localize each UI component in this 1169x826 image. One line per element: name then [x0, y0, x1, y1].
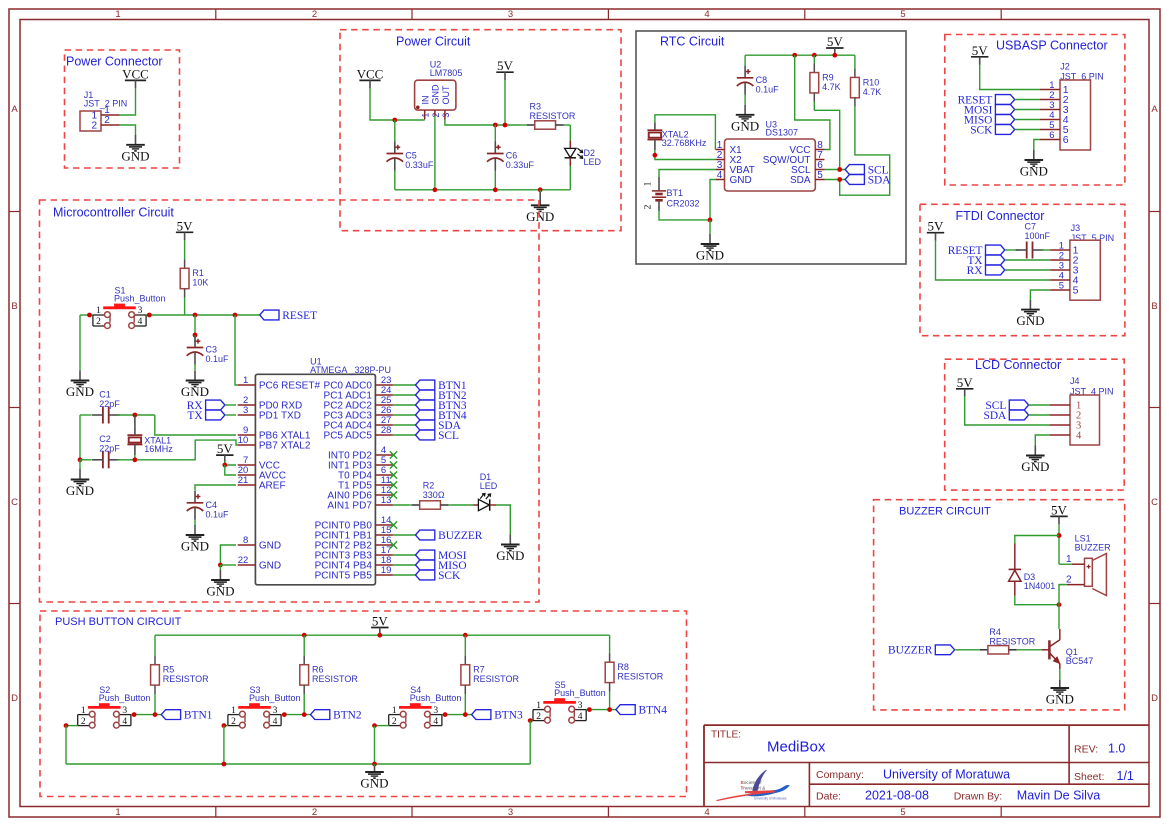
wire C5 top — [394, 120, 396, 142]
wire BT1 to ground — [659, 211, 710, 220]
svg-text:0.1uF: 0.1uF — [206, 509, 230, 519]
svg-text:2: 2 — [644, 204, 654, 209]
power flag VCC (Power Connector) — [122, 66, 149, 88]
wire pin5 to SDA port — [825, 179, 846, 181]
wire AREF to C4 — [195, 485, 236, 491]
ground (FTDI) — [1016, 300, 1044, 328]
svg-text:Drawn By:: Drawn By: — [954, 791, 1002, 803]
svg-text:R6: R6 — [312, 665, 324, 675]
svg-text:LCD Connector: LCD Connector — [975, 358, 1061, 372]
svg-text:3: 3 — [441, 113, 451, 118]
svg-text:2: 2 — [1066, 574, 1072, 585]
svg-text:RESISTOR: RESISTOR — [530, 111, 576, 121]
wire MISO to J2 — [1015, 119, 1040, 121]
svg-text:R9: R9 — [822, 72, 834, 82]
svg-text:BUZZER: BUZZER — [438, 530, 483, 542]
svg-text:RESET: RESET — [282, 310, 317, 322]
ground (S1) — [66, 370, 94, 399]
wire D3 bottom branch — [1015, 596, 1059, 605]
svg-text:4.7K: 4.7K — [863, 87, 882, 97]
svg-text:2: 2 — [104, 115, 110, 126]
svg-text:2021-08-08: 2021-08-08 — [865, 789, 929, 803]
svg-text:2: 2 — [91, 121, 97, 132]
wire SCL to J4 pin1 — [1029, 404, 1050, 406]
wire SCK to J2 — [1015, 129, 1040, 131]
svg-text:0.33uF: 0.33uF — [506, 160, 535, 170]
crystal XTAL1 — [127, 415, 173, 455]
connector J3 JST_5 PIN — [1050, 240, 1100, 300]
junction 5V flag (push) — [377, 633, 382, 638]
svg-text:2: 2 — [392, 717, 397, 727]
resistor R3 — [520, 102, 576, 130]
svg-text:LM7805: LM7805 — [430, 68, 463, 78]
svg-text:AIN1 PD7: AIN1 PD7 — [327, 501, 372, 512]
wire VCC pin8 path — [795, 55, 830, 149]
USBASP Connector block box — [945, 35, 1125, 186]
svg-text:USBASP Connector: USBASP Connector — [996, 38, 1108, 52]
svg-text:3: 3 — [122, 706, 127, 716]
push button S2 — [78, 685, 151, 728]
svg-text:PD1 TXD: PD1 TXD — [259, 411, 301, 422]
power flag 5V (Power Circuit) — [496, 58, 513, 80]
wire LS1 pin2 down — [1059, 585, 1066, 605]
junction XTAL1 top — [133, 413, 138, 418]
wire 5V to J3 pin4 — [936, 240, 1051, 280]
svg-text:SCK: SCK — [438, 570, 461, 582]
wire BTN2 pin2 left — [224, 725, 228, 727]
svg-text:2: 2 — [312, 9, 317, 20]
svg-text:5V: 5V — [372, 614, 389, 629]
battery BT1 CR2032 — [644, 177, 700, 211]
power flag 5V (micro) — [176, 218, 193, 242]
svg-text:R8: R8 — [617, 662, 629, 672]
BUZZER CIRCUIT block box — [874, 500, 1125, 710]
junction at C6 top — [493, 123, 498, 128]
power flag VCC (Power Circuit) — [357, 66, 384, 88]
svg-text:GND: GND — [730, 175, 752, 186]
svg-text:PB7 XTAL2: PB7 XTAL2 — [259, 441, 311, 452]
svg-text:1: 1 — [231, 706, 236, 716]
svg-text:C: C — [1151, 497, 1158, 508]
wire to AVCC — [225, 465, 236, 475]
power flag 5V (LCD) — [956, 375, 973, 397]
wire U2 OUT to 5V rail — [445, 120, 520, 126]
svg-text:Society of: Society of — [741, 780, 763, 786]
svg-text:R10: R10 — [863, 77, 880, 87]
wire S pin3 to port (BTN2) — [281, 714, 310, 716]
wire MOSI to J2 — [1015, 109, 1040, 111]
svg-text:GND: GND — [431, 84, 441, 105]
ground (RTC) — [696, 220, 724, 263]
net port BTN4 — [616, 705, 667, 717]
junction R bottom (BTN3) — [463, 712, 468, 717]
svg-text:PCINT5 PB5: PCINT5 PB5 — [315, 571, 373, 582]
LED D2 — [565, 125, 602, 190]
svg-text:GND: GND — [1021, 459, 1049, 474]
svg-text:2: 2 — [81, 717, 86, 727]
svg-text:4: 4 — [578, 712, 583, 722]
svg-text:PC6 RESET#: PC6 RESET# — [259, 381, 321, 392]
svg-text:5: 5 — [817, 170, 823, 181]
svg-text:B: B — [11, 301, 17, 312]
svg-text:BUZZER CIRCUIT: BUZZER CIRCUIT — [899, 505, 991, 517]
wire BTN3 pin2 left — [375, 725, 389, 727]
push button S3 — [228, 685, 301, 728]
svg-text:AREF: AREF — [259, 481, 286, 492]
no-connect flag — [390, 491, 397, 498]
svg-text:3: 3 — [433, 706, 438, 716]
title block frame — [704, 725, 1149, 806]
svg-text:4: 4 — [704, 807, 709, 818]
svg-text:VCC: VCC — [357, 66, 384, 81]
svg-text:32.768KHz: 32.768KHz — [662, 138, 707, 148]
buzzer LS1 — [1059, 534, 1111, 596]
junction at 5V drop — [503, 123, 508, 128]
voltage regulator U2 LM7805 — [415, 60, 463, 120]
svg-text:4: 4 — [273, 717, 278, 727]
net port RX (micro) — [187, 400, 225, 412]
junction R7 top — [463, 633, 468, 638]
junction S pin3 (BTN1) — [132, 712, 137, 717]
wire PB1 to BUZZER — [393, 534, 416, 536]
wire PC pin to SCL — [393, 434, 416, 436]
svg-text:TITLE:: TITLE: — [711, 730, 741, 741]
svg-text:RESISTOR: RESISTOR — [617, 672, 663, 682]
svg-text:BTN3: BTN3 — [494, 710, 523, 722]
svg-text:1: 1 — [115, 807, 120, 818]
resistor R4 — [955, 627, 1042, 654]
svg-text:5V: 5V — [957, 375, 974, 390]
capacitor C6 — [487, 142, 534, 171]
wire C3 to ground — [194, 365, 196, 372]
svg-text:R1: R1 — [192, 268, 204, 278]
wire PB pin to SCK — [393, 574, 416, 576]
svg-text:2: 2 — [231, 717, 236, 727]
svg-text:5V: 5V — [177, 218, 194, 233]
wire C8 to ground — [744, 95, 746, 105]
svg-text:TX: TX — [187, 410, 203, 422]
junction S pin3 (BTN2) — [282, 712, 287, 717]
capacitor C2 — [92, 434, 120, 468]
junction D3 bottom — [1057, 602, 1062, 607]
svg-text:RESISTOR: RESISTOR — [312, 674, 358, 684]
resistor R1 — [180, 242, 208, 315]
pin 2 of J1 — [101, 124, 120, 126]
wire C6 top — [494, 125, 496, 142]
svg-text:Mavin De Silva: Mavin De Silva — [1017, 789, 1100, 803]
svg-text:5V: 5V — [217, 441, 234, 456]
wire to PB6 — [155, 415, 236, 435]
no-connect flag — [390, 451, 397, 458]
RTC IC U3 DS1307 — [715, 119, 824, 191]
svg-text:BC547: BC547 — [1066, 656, 1094, 666]
junction C3 wire end — [193, 333, 198, 338]
svg-text:1/1: 1/1 — [1117, 769, 1134, 783]
capacitor C8 — [737, 66, 779, 95]
svg-text:5V: 5V — [972, 43, 989, 58]
wire 5V down (buzzer) — [1058, 525, 1060, 564]
power flag 5V (FTDI) — [927, 219, 944, 241]
junction R9 top — [812, 53, 817, 58]
connector J4 JST_4 PIN — [1050, 395, 1100, 445]
junction VCC — [222, 463, 227, 468]
svg-text:2: 2 — [96, 317, 101, 327]
net port SCL (LCD) — [985, 400, 1028, 412]
wire PC pin to BTN3 — [393, 404, 416, 406]
svg-text:2: 2 — [536, 712, 541, 722]
junction R bottom (BTN2) — [302, 712, 307, 717]
junction D3 top — [1057, 533, 1062, 538]
svg-text:4: 4 — [138, 317, 143, 327]
wire C1 left — [80, 414, 92, 416]
wire ground rail (push buttons) — [66, 763, 530, 765]
pin 1 of J1 — [101, 114, 120, 116]
wire left drop (BTN2) — [223, 726, 225, 764]
svg-text:Sheet:: Sheet: — [1074, 771, 1104, 783]
junction R6 top — [302, 633, 307, 638]
capacitor C3 — [187, 336, 229, 365]
net port SDA (RTC) — [845, 174, 891, 186]
svg-text:13: 13 — [381, 495, 392, 506]
junction S pin2 (BTN2) — [222, 723, 227, 728]
svg-text:0.1uF: 0.1uF — [206, 354, 230, 364]
svg-text:22: 22 — [238, 555, 249, 566]
resistor R10 — [851, 55, 882, 120]
svg-text:GND: GND — [526, 209, 554, 224]
junction S pin2 (BTN1) — [64, 723, 69, 728]
wire PC pin to BTN1 — [393, 384, 416, 386]
Microcontroller Circuit block box — [40, 200, 540, 602]
svg-text:A: A — [11, 104, 18, 115]
wire J3 pin5 to ground — [1030, 290, 1050, 300]
wire PC pin to BTN2 — [393, 394, 416, 396]
junction S1 pin1 — [87, 313, 92, 318]
svg-text:C: C — [11, 497, 18, 508]
svg-text:BTN4: BTN4 — [639, 705, 668, 717]
wire 5V flag down — [504, 80, 506, 125]
wire D3 top branch — [1015, 536, 1059, 544]
wire S1 pin1 — [80, 314, 93, 316]
power flag 5V (USBASP) — [971, 43, 988, 65]
net port SCK (micro) — [416, 570, 462, 582]
wire left rail to C2 — [79, 415, 81, 460]
svg-text:J4: J4 — [1070, 376, 1080, 386]
svg-text:1: 1 — [536, 701, 541, 711]
wire BTN4 pin2 left — [530, 720, 533, 722]
svg-text:3: 3 — [508, 9, 513, 20]
svg-text:GND: GND — [1046, 692, 1074, 707]
svg-text:PC5 ADC5: PC5 ADC5 — [324, 431, 373, 442]
svg-text:Push_Button: Push_Button — [114, 293, 166, 303]
ground (C4) — [181, 525, 209, 554]
svg-text:5V: 5V — [827, 34, 844, 49]
net port BUZZER (micro) — [416, 530, 483, 542]
svg-text:LED: LED — [584, 157, 602, 167]
svg-text:0.1uF: 0.1uF — [756, 84, 780, 94]
ground (C3) — [181, 371, 209, 399]
ground (D1) — [496, 535, 524, 564]
wire reset net — [146, 314, 260, 316]
net port BTN1 — [161, 710, 212, 722]
svg-text:DS1307: DS1307 — [766, 128, 799, 138]
resistor R8 — [605, 635, 664, 709]
wire J2 pin6 to ground — [1034, 140, 1040, 151]
net port SCK (USBASP) — [970, 124, 1014, 136]
Power Circuit block box — [340, 30, 621, 231]
svg-text:19: 19 — [381, 565, 392, 576]
svg-text:A: A — [1151, 104, 1158, 115]
resistor R5 — [151, 635, 210, 714]
svg-text:1: 1 — [392, 706, 397, 716]
wire U3 GND pin4 — [710, 180, 715, 220]
svg-text:GND: GND — [181, 384, 209, 399]
svg-text:BTN2: BTN2 — [333, 710, 362, 722]
svg-text:1: 1 — [96, 306, 101, 316]
svg-text:10: 10 — [238, 435, 249, 446]
svg-text:BT1: BT1 — [667, 188, 684, 198]
no-connect flag — [390, 481, 397, 488]
svg-text:0.33uF: 0.33uF — [405, 160, 434, 170]
svg-text:RESISTOR: RESISTOR — [473, 674, 519, 684]
svg-text:T: T — [741, 786, 744, 792]
svg-text:Push_Button: Push_Button — [410, 693, 462, 703]
wire VCC to U2 IN — [370, 89, 425, 121]
svg-text:1: 1 — [243, 375, 248, 386]
wire PC pin to SDA — [393, 424, 416, 426]
svg-text:BUZZER: BUZZER — [1075, 543, 1112, 553]
wire PB pin to MISO — [393, 564, 416, 566]
wire 5V rail (push buttons) — [155, 634, 610, 636]
crystal XTAL2 — [647, 123, 706, 151]
capacitor C7 — [1016, 222, 1051, 259]
svg-text:R5: R5 — [163, 665, 175, 675]
wire left drop (BTN1) — [65, 726, 67, 764]
wire 5V to J4 pin3 — [965, 396, 1050, 425]
Power Connector block box — [65, 50, 180, 168]
ground (push buttons) — [360, 764, 388, 791]
svg-text:3: 3 — [243, 405, 248, 416]
net port RESET (USBASP) — [958, 94, 1015, 106]
junction at C5 top — [392, 118, 397, 123]
wire C1 to XTAL1 top — [117, 414, 155, 416]
wire XTAL1 bottom — [134, 455, 136, 460]
svg-text:IN: IN — [420, 96, 430, 105]
svg-text:8: 8 — [243, 535, 248, 546]
power flag 5V (buzzer) — [1050, 502, 1067, 525]
junction S1 pin3 — [147, 313, 152, 318]
svg-text:MediBox: MediBox — [767, 738, 826, 755]
connector J1 — [80, 111, 101, 131]
svg-text:3: 3 — [508, 807, 513, 818]
net port RESET (micro) — [260, 310, 317, 322]
resistor R6 — [300, 635, 359, 714]
svg-text:Push_Button: Push_Button — [99, 693, 151, 703]
ground (Power Connector) — [121, 135, 149, 163]
no-connect flag — [390, 461, 397, 468]
svg-text:GND: GND — [731, 118, 759, 133]
svg-text:10K: 10K — [192, 278, 208, 288]
junction S3 drop — [222, 762, 227, 767]
diode D3 1N4001 — [1009, 544, 1056, 596]
wire left drop (BTN4) — [529, 721, 531, 764]
net port RESET (FTDI) — [948, 245, 1005, 257]
net port BUZZER (buzzer) — [888, 645, 955, 657]
svg-text:3: 3 — [138, 306, 143, 316]
junction R bottom (BTN4) — [607, 707, 612, 712]
junction C6 at rail — [493, 187, 498, 192]
svg-text:LED: LED — [480, 481, 498, 491]
junction R bottom (BTN1) — [153, 712, 158, 717]
svg-text:Date:: Date: — [816, 791, 841, 803]
svg-text:SCL: SCL — [438, 430, 459, 442]
ground (C8) — [731, 105, 759, 133]
junction PC6 tap — [233, 313, 238, 318]
svg-text:4: 4 — [1076, 431, 1082, 442]
wire C7 to J3 pin1 — [1041, 249, 1050, 251]
junction C3 tap — [193, 313, 198, 318]
svg-text:2: 2 — [312, 807, 317, 818]
net port SCL (micro) — [416, 430, 460, 442]
no-connect flag — [390, 471, 397, 478]
net port MOSI (USBASP) — [964, 104, 1015, 116]
power flag 5V (RTC) — [826, 34, 843, 56]
wire R10 to SDA net — [840, 120, 890, 195]
wire TX to PD1 — [225, 414, 236, 416]
RTC Circuit block box — [636, 31, 906, 264]
wire R9 to SCL net — [814, 110, 839, 169]
junction U2 GND at rail — [433, 187, 438, 192]
resistor R7 — [461, 635, 520, 714]
ground (USBASP) — [1020, 150, 1048, 179]
no-connect flag — [390, 521, 397, 528]
logo Society of Transport — [716, 770, 790, 801]
svg-text:4.7K: 4.7K — [822, 82, 841, 92]
connector J2 JST_6 PIN — [1040, 80, 1091, 150]
power flag 5V (micro VCC) — [216, 441, 233, 463]
svg-text:5V: 5V — [497, 58, 514, 73]
wire PD7 to R2 — [393, 504, 409, 506]
svg-text:1: 1 — [1066, 554, 1072, 565]
svg-text:GND: GND — [66, 483, 94, 498]
ground (buzzer) — [1046, 680, 1074, 707]
FTDI Connector block box — [920, 204, 1125, 335]
svg-text:SDA: SDA — [984, 410, 1008, 422]
net port SDA (micro) — [416, 420, 462, 432]
wire D1 to ground — [496, 505, 510, 535]
wire U2 GND pin down — [434, 116, 436, 190]
svg-text:GND: GND — [181, 539, 209, 554]
svg-text:330Ω: 330Ω — [423, 490, 445, 500]
svg-text:4: 4 — [122, 717, 127, 727]
svg-text:D: D — [11, 693, 18, 704]
push button S1 — [93, 285, 166, 328]
junction SCL — [837, 167, 842, 172]
wire 5V to VCC pin — [225, 461, 236, 465]
junction SDA — [837, 177, 842, 182]
svg-text:28: 28 — [381, 425, 392, 436]
svg-text:GND: GND — [360, 776, 388, 791]
ground (Power Circuit) — [526, 190, 554, 224]
svg-text:D: D — [1151, 693, 1158, 704]
junction S pin2 (BTN3) — [372, 723, 377, 728]
net port SDA (LCD) — [984, 410, 1029, 422]
wire 5V to J2 pin1 — [980, 65, 1040, 90]
svg-text:5V: 5V — [1051, 502, 1068, 517]
net port MISO (USBASP) — [964, 114, 1015, 126]
svg-text:B: B — [1151, 301, 1157, 312]
net port TX (micro) — [187, 410, 224, 422]
svg-text:1: 1 — [81, 706, 86, 716]
